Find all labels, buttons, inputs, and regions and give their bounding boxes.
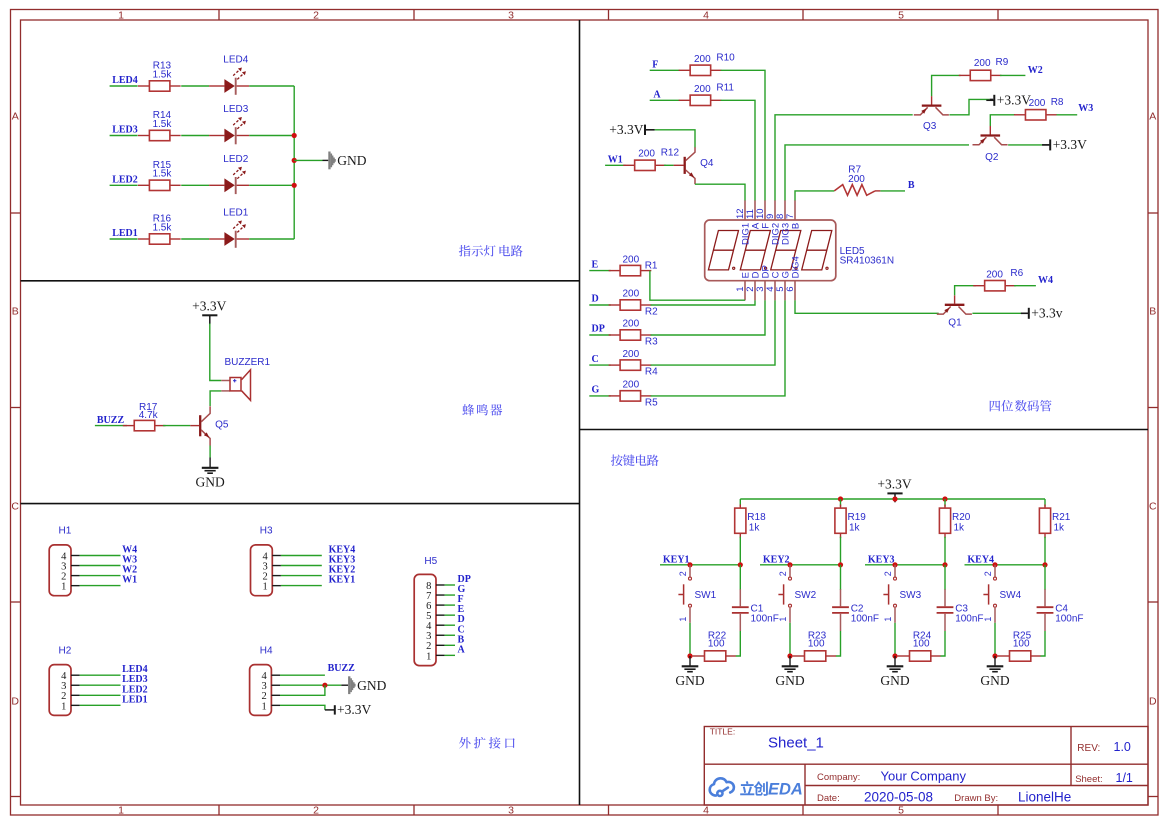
wire LED1 <box>80 704 121 706</box>
svg-text:R12: R12 <box>661 147 680 158</box>
svg-text:200: 200 <box>1029 98 1046 109</box>
junction <box>838 562 843 567</box>
wire Q4 to pin12 <box>695 184 745 200</box>
section label 外扩接口 <box>459 737 515 749</box>
pin 9 of LED5 <box>765 200 782 245</box>
wire <box>249 238 294 240</box>
wire to cap <box>739 565 741 590</box>
svg-text:100: 100 <box>1013 639 1030 650</box>
svg-text:H1: H1 <box>59 526 72 537</box>
svg-text:R4: R4 <box>645 367 658 378</box>
svg-text:C: C <box>1149 501 1157 513</box>
wire LED1 <box>110 238 138 240</box>
transistor Q3 <box>914 96 949 132</box>
logo text 立创 <box>740 781 768 796</box>
wire KEY4 <box>281 555 322 557</box>
pin 2 of H5 <box>426 641 444 652</box>
svg-text:1.5k: 1.5k <box>152 169 172 180</box>
svg-text:1: 1 <box>678 617 688 622</box>
svg-text:1: 1 <box>118 9 124 21</box>
wire W1 <box>605 164 626 166</box>
wire SW to junction <box>689 623 691 656</box>
svg-text:W1: W1 <box>608 154 623 165</box>
pin 8 of LED5 <box>775 200 792 245</box>
svg-text:A: A <box>12 111 19 123</box>
wire black to power <box>990 98 994 100</box>
svg-text:+3.3V: +3.3V <box>997 93 1031 108</box>
wire SW to junction <box>894 623 896 656</box>
wire to cap <box>944 565 946 590</box>
svg-text:A: A <box>653 90 661 101</box>
power +3.3V <box>1021 306 1063 321</box>
wire C <box>589 364 611 366</box>
wire W2 <box>1000 74 1025 76</box>
connector H5 <box>414 574 436 665</box>
wire black to gnd flag <box>323 159 329 161</box>
svg-text:100nF: 100nF <box>851 613 879 624</box>
svg-text:2: 2 <box>678 571 688 576</box>
digit 1 of LED5 <box>708 231 738 270</box>
svg-text:EDA: EDA <box>768 781 803 799</box>
svg-text:1.5k: 1.5k <box>152 222 172 233</box>
junction <box>992 562 997 567</box>
buzzer BUZZER1 <box>221 357 270 400</box>
svg-text:200: 200 <box>638 149 655 160</box>
wire Q3 base to R9 <box>932 75 961 96</box>
svg-text:200: 200 <box>694 54 711 65</box>
resistor R16 <box>138 234 181 244</box>
svg-text:100: 100 <box>808 639 825 650</box>
pin 1 of H3 <box>262 582 280 593</box>
pin 12 of LED5 <box>735 200 752 245</box>
svg-text:200: 200 <box>622 319 639 330</box>
pin 4 of H5 <box>426 621 444 632</box>
svg-text:100nF: 100nF <box>1055 613 1083 624</box>
junction <box>687 653 692 658</box>
wire pin9 to Q3 <box>775 115 913 201</box>
power +3.3V <box>986 93 1031 108</box>
svg-text:DIG4: DIG4 <box>791 256 802 278</box>
pin 1 of H4 <box>262 701 280 712</box>
svg-text:SR410361N: SR410361N <box>840 256 894 267</box>
junction <box>787 562 792 567</box>
transistor Q1 <box>937 295 972 328</box>
wire black to power <box>325 709 334 711</box>
svg-text:1.0: 1.0 <box>1114 740 1131 754</box>
svg-text:GND: GND <box>880 673 909 688</box>
wire Q1 emitter to +3.3V <box>972 312 1021 314</box>
svg-text:2: 2 <box>313 805 319 817</box>
wire pin7 to R7 <box>795 191 834 201</box>
svg-text:Q5: Q5 <box>215 419 229 430</box>
wire W2 <box>80 575 121 577</box>
resistor R24 <box>898 631 941 662</box>
pin 7 of LED5 <box>785 200 802 229</box>
section label 四位数码管 <box>990 400 1052 412</box>
wire to cap <box>840 565 842 590</box>
svg-text:Q3: Q3 <box>923 121 937 132</box>
svg-text:Your Company: Your Company <box>881 768 967 783</box>
svg-text:200: 200 <box>986 270 1003 281</box>
svg-text:200: 200 <box>622 349 639 360</box>
resistor R20 <box>939 499 970 565</box>
svg-text:Date:: Date: <box>817 793 840 804</box>
svg-text:2: 2 <box>983 571 993 576</box>
wire to GND <box>280 684 341 686</box>
svg-text:LED1: LED1 <box>223 208 248 219</box>
svg-text:Q1: Q1 <box>948 318 962 329</box>
wire B <box>880 190 905 192</box>
junction <box>892 562 897 567</box>
wire Q5 emitter to GND <box>209 446 211 458</box>
svg-text:R8: R8 <box>1051 97 1064 108</box>
display LED5 SR410361N <box>705 220 894 281</box>
svg-text:KEY3: KEY3 <box>868 554 895 565</box>
svg-text:B: B <box>908 180 915 191</box>
svg-text:F: F <box>652 60 658 71</box>
connector H1 <box>49 545 71 596</box>
connector H4 <box>250 665 272 716</box>
svg-text:TITLE:: TITLE: <box>710 727 736 737</box>
svg-text:BUZZ: BUZZ <box>97 415 125 426</box>
ground GND <box>880 656 909 688</box>
wire cap to R <box>1040 631 1045 656</box>
svg-text:KEY1: KEY1 <box>329 575 356 586</box>
svg-text:D: D <box>1149 696 1157 708</box>
resistor R4 <box>609 360 652 370</box>
junction <box>292 183 297 188</box>
svg-text:3: 3 <box>508 805 514 817</box>
svg-text:Sheet:: Sheet: <box>1075 774 1102 785</box>
pin 1 of H5 <box>426 651 444 662</box>
wire G to pin5 <box>651 300 785 396</box>
svg-text:7: 7 <box>785 214 796 219</box>
wire W4 <box>1014 285 1036 287</box>
svg-text:1: 1 <box>262 701 267 712</box>
svg-text:1.5k: 1.5k <box>152 69 172 80</box>
svg-text:LionelHe: LionelHe <box>1018 790 1071 805</box>
pin 2 of H2 <box>61 691 79 702</box>
pin 2 of LED5 <box>745 271 762 300</box>
wire W1 <box>80 585 121 587</box>
junction <box>838 496 843 501</box>
wire W3 <box>1057 114 1078 116</box>
resistor R25 <box>998 631 1041 662</box>
wire pin2 <box>280 685 325 695</box>
svg-text:1: 1 <box>61 701 66 712</box>
junction <box>942 562 947 567</box>
svg-text:2020-05-08: 2020-05-08 <box>864 790 933 805</box>
svg-text:1k: 1k <box>954 523 966 534</box>
wire A <box>445 654 455 656</box>
wire <box>249 135 294 137</box>
wire <box>181 85 209 87</box>
svg-text:1: 1 <box>883 617 893 622</box>
svg-text:200: 200 <box>694 84 711 95</box>
wire black to gnd flag <box>341 684 348 686</box>
LED LED3 <box>209 104 249 144</box>
svg-text:4: 4 <box>703 9 709 21</box>
svg-text:C: C <box>11 501 19 513</box>
switch SW1 <box>678 565 717 623</box>
svg-text:200: 200 <box>974 58 991 69</box>
svg-text:100nF: 100nF <box>955 613 983 624</box>
svg-text:E: E <box>592 259 599 270</box>
wire LED3 <box>110 135 138 137</box>
switch SW3 <box>883 565 922 623</box>
wire bus to GND <box>293 86 295 239</box>
svg-text:3: 3 <box>508 9 514 21</box>
wire KEY4 <box>965 564 1046 566</box>
section label 指示灯电路 <box>459 245 523 257</box>
svg-text:D: D <box>592 294 599 305</box>
resistor R8 <box>1014 110 1057 120</box>
svg-text:1: 1 <box>983 617 993 622</box>
transistor Q5 <box>190 406 229 445</box>
svg-text:A: A <box>458 644 466 655</box>
ground GND <box>195 458 224 490</box>
digit 4 of LED5 <box>802 231 832 270</box>
svg-text:1: 1 <box>426 651 431 662</box>
LED LED2 <box>209 154 249 194</box>
pin 6 of LED5 <box>785 256 802 300</box>
svg-text:C: C <box>592 354 599 365</box>
pin 1 of LED5 <box>735 272 752 300</box>
svg-text:Q2: Q2 <box>985 152 999 163</box>
wire DP <box>589 334 611 336</box>
LED LED1 <box>209 208 249 248</box>
junction <box>992 653 997 658</box>
wire E <box>445 614 455 616</box>
resistor R11 <box>679 95 722 105</box>
wire BUZZ <box>280 674 325 676</box>
svg-text:4: 4 <box>703 805 709 817</box>
svg-text:LED2: LED2 <box>112 174 138 185</box>
resistor R23 <box>793 631 836 662</box>
pin 4 of LED5 <box>765 271 782 300</box>
svg-text:GND: GND <box>980 673 1009 688</box>
wire KEY3 <box>865 564 945 566</box>
wire cap to R <box>940 631 945 656</box>
section label 蜂鸣器 <box>462 404 502 416</box>
svg-text:1: 1 <box>778 617 788 622</box>
svg-text:5: 5 <box>898 9 904 21</box>
svg-text:R1: R1 <box>645 260 658 271</box>
pin 3 of H3 <box>262 561 280 572</box>
svg-text:+3.3V: +3.3V <box>609 122 643 137</box>
pin 2 of H1 <box>61 572 79 583</box>
svg-text:W4: W4 <box>1038 275 1053 286</box>
svg-text:+3.3V: +3.3V <box>337 702 371 717</box>
svg-text:Q4: Q4 <box>700 158 714 169</box>
svg-text:R18: R18 <box>747 512 766 523</box>
svg-text:Sheet_1: Sheet_1 <box>768 734 824 751</box>
wire W4 <box>80 555 121 557</box>
wire F <box>650 69 680 71</box>
ground GND <box>980 656 1009 688</box>
resistor R3 <box>609 330 652 340</box>
resistor R19 <box>835 499 866 565</box>
wire black to power <box>1021 312 1028 314</box>
svg-text:200: 200 <box>622 254 639 265</box>
switch SW2 <box>778 565 817 623</box>
svg-text:+3.3V: +3.3V <box>1053 137 1087 152</box>
wire KEY2 <box>281 575 322 577</box>
svg-text:GND: GND <box>195 475 224 490</box>
svg-text:LED1: LED1 <box>122 694 148 705</box>
pin 5 of LED5 <box>775 271 792 300</box>
resistor R10 <box>679 65 722 75</box>
resistor R21 <box>1039 499 1070 565</box>
wire BUZZ <box>95 425 127 427</box>
pin 4 of H2 <box>61 671 79 682</box>
svg-text:+3.3V: +3.3V <box>192 299 226 314</box>
resistor R9 <box>959 70 1002 80</box>
junction <box>787 653 792 658</box>
pin 3 of H5 <box>426 631 444 642</box>
svg-text:Company:: Company: <box>817 772 860 783</box>
svg-text:BUZZER1: BUZZER1 <box>225 357 271 368</box>
svg-text:GND: GND <box>337 153 366 168</box>
svg-text:LED4: LED4 <box>112 75 138 86</box>
svg-text:D: D <box>11 696 19 708</box>
svg-text:Drawn By:: Drawn By: <box>954 793 998 804</box>
resistor R18 <box>735 499 766 565</box>
svg-text:LED4: LED4 <box>223 55 248 66</box>
wire G <box>589 395 611 397</box>
svg-text:KEY2: KEY2 <box>763 554 790 565</box>
ground GND flag <box>348 676 386 694</box>
pin 3 of H1 <box>61 561 79 572</box>
wire LED4 <box>110 85 138 87</box>
resistor R22 <box>693 631 736 662</box>
resistor R1 <box>609 265 652 275</box>
junction <box>292 133 297 138</box>
wire buzzer to Q5 <box>210 391 221 406</box>
svg-text:R10: R10 <box>716 53 735 64</box>
LED LED4 <box>209 55 249 95</box>
junction <box>1042 562 1047 567</box>
svg-text:2: 2 <box>313 9 319 21</box>
svg-text:LED3: LED3 <box>223 104 248 115</box>
svg-text:H2: H2 <box>59 645 72 656</box>
connector H3 <box>251 545 273 596</box>
wire KEY1 <box>281 585 322 587</box>
junction <box>322 683 327 688</box>
power +3.3V <box>1042 137 1087 152</box>
pin 2 of H4 <box>262 691 280 702</box>
resistor R2 <box>609 300 652 310</box>
wire <box>249 184 294 186</box>
pin 6 of H5 <box>426 601 444 612</box>
svg-text:+3.3v: +3.3v <box>1031 306 1062 321</box>
svg-text:LED2: LED2 <box>223 154 248 165</box>
wire Q2 base to R8 <box>990 115 1015 126</box>
svg-text:SW3: SW3 <box>900 590 922 601</box>
svg-text:6: 6 <box>785 287 796 292</box>
wire +3.3V to Q4 collector <box>655 130 695 148</box>
svg-text:H5: H5 <box>424 556 437 567</box>
wire Q1 base to R6 <box>955 286 976 296</box>
svg-text:200: 200 <box>848 174 865 185</box>
svg-text:KEY1: KEY1 <box>663 554 690 565</box>
svg-text:4.7k: 4.7k <box>139 410 159 421</box>
junction <box>892 496 897 501</box>
pin 7 of H5 <box>426 591 444 602</box>
wire +3.3V rail <box>740 498 1045 500</box>
wire pin6 to Q1 <box>795 300 939 313</box>
wire LED2 <box>80 694 121 696</box>
pin 5 of H5 <box>426 611 444 622</box>
wire pin8 to Q2 <box>785 145 969 201</box>
svg-text:H3: H3 <box>260 526 273 537</box>
svg-text:1k: 1k <box>749 523 761 534</box>
pin 3 of H4 <box>262 681 280 692</box>
svg-text:DP: DP <box>592 324 605 335</box>
svg-text:100nF: 100nF <box>751 613 779 624</box>
wire to cap <box>1044 565 1046 590</box>
wire W3 <box>80 565 121 567</box>
wire Q3 emitter to +3.3V <box>949 99 989 114</box>
wire SW to junction <box>994 623 996 656</box>
svg-text:R19: R19 <box>848 512 867 523</box>
wire DP to pin3 <box>651 300 765 335</box>
junction <box>292 158 297 163</box>
wire +3.3V to buzzer <box>210 324 222 381</box>
capacitor C3 <box>937 589 984 631</box>
pin 10 of LED5 <box>755 200 772 228</box>
wire <box>163 425 190 427</box>
svg-text:W3: W3 <box>1078 103 1093 114</box>
svg-text:100: 100 <box>913 639 930 650</box>
wire F to pin10 <box>721 70 765 200</box>
svg-text:1: 1 <box>118 805 124 817</box>
svg-text:GND: GND <box>357 678 386 693</box>
wire A <box>650 99 680 101</box>
switch SW4 <box>983 565 1022 623</box>
capacitor C4 <box>1037 589 1084 631</box>
wire <box>181 135 209 137</box>
svg-text:200: 200 <box>622 289 639 300</box>
svg-text:B: B <box>12 306 19 318</box>
digit 2 of LED5 <box>740 231 770 270</box>
wire E to pin1 <box>650 271 745 301</box>
svg-text:1k: 1k <box>1054 523 1066 534</box>
wire A to pin11 <box>721 100 755 200</box>
resistor R12 <box>623 160 666 170</box>
wire E <box>589 270 611 272</box>
svg-text:KEY4: KEY4 <box>967 554 994 565</box>
svg-text:R5: R5 <box>645 397 658 408</box>
wire power to Q4 <box>646 129 655 131</box>
wire B <box>445 644 455 646</box>
svg-text:R2: R2 <box>645 307 658 318</box>
wire C <box>445 634 455 636</box>
title block <box>704 727 1148 806</box>
svg-text:BUZZ: BUZZ <box>328 663 356 674</box>
wire <box>664 164 674 166</box>
wire F <box>445 604 455 606</box>
svg-text:GND: GND <box>775 673 804 688</box>
pin 4 of H4 <box>262 671 280 682</box>
svg-text:W2: W2 <box>1028 65 1043 76</box>
wire D <box>589 304 611 306</box>
svg-text:100: 100 <box>708 639 725 650</box>
ground GND <box>775 656 804 688</box>
svg-text:SW1: SW1 <box>695 590 717 601</box>
wire cap to R <box>836 631 841 656</box>
svg-text:B: B <box>1149 306 1156 318</box>
